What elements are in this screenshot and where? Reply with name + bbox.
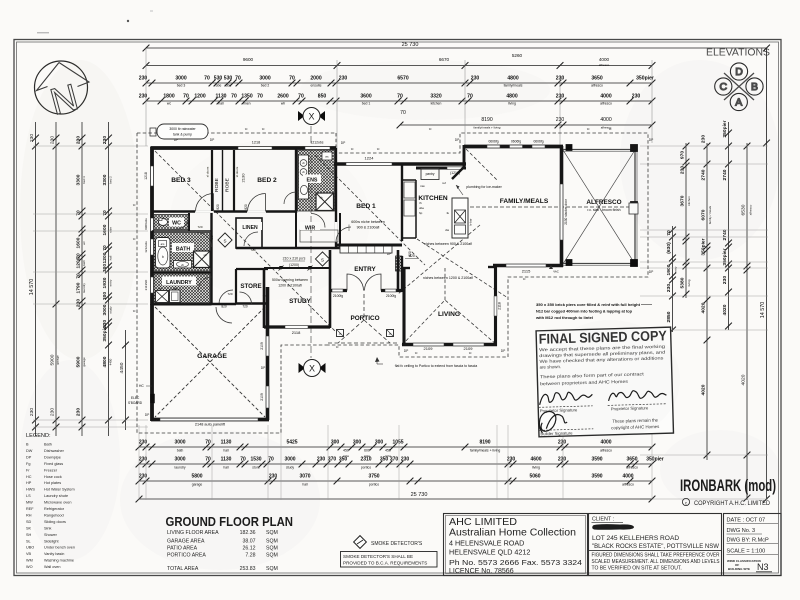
svg-text:4800: 4800	[102, 356, 108, 367]
wall family left upper	[463, 145, 466, 168]
bath room hatch	[154, 233, 210, 272]
svg-text:300: 300	[353, 440, 362, 446]
wall family right	[560, 146, 564, 267]
svg-text:25 730: 25 730	[402, 42, 419, 48]
wc room hatch	[154, 215, 188, 230]
wall entry bottom left segment	[330, 289, 347, 292]
svg-text:alfresco: alfresco	[622, 483, 634, 487]
wall garage bottom	[151, 418, 269, 422]
svg-text:0906obs: 0906obs	[144, 218, 148, 230]
svg-text:350pier: 350pier	[636, 76, 654, 82]
proprietor signature 2 squiggle	[608, 390, 666, 401]
svg-text:SL: SL	[26, 539, 31, 543]
wall hall bedrooms horizontal	[152, 210, 296, 213]
svg-text:450: 450	[385, 449, 391, 453]
svg-text:CLIENT :: CLIENT :	[592, 517, 614, 523]
dimension column left 3	[81, 122, 83, 436]
ens vanity	[299, 155, 309, 199]
wall garage top partial	[211, 303, 236, 306]
svg-text:230: 230	[401, 457, 410, 463]
svg-text:1350: 1350	[241, 94, 252, 100]
svg-text:600: 600	[364, 449, 370, 453]
svg-text:portico: portico	[369, 483, 379, 487]
living windows 2109 x2	[413, 343, 444, 346]
wall family top	[464, 145, 563, 149]
svg-text:2109: 2109	[424, 346, 434, 351]
door gap bed3	[195, 210, 214, 213]
smoke detector note box	[341, 552, 438, 568]
roof hip diagonal bed wing	[155, 151, 338, 334]
svg-text:1800: 1800	[163, 94, 174, 100]
svg-text:PROVIDED TO B.C.A. REQUIREM: PROVIDED TO B.C.A. REQUIREMENTS	[343, 561, 427, 566]
svg-text:0606fg: 0606fg	[511, 140, 521, 144]
ens door arc	[284, 192, 296, 204]
bath tub	[156, 238, 171, 269]
wall bed1 right	[401, 164, 403, 241]
family windows 0606fg x3	[487, 145, 500, 148]
svg-text:530: 530	[214, 76, 223, 82]
svg-text:alfresco: alfresco	[591, 84, 603, 88]
svg-text:4000: 4000	[600, 94, 611, 100]
svg-text:2310: 2310	[360, 457, 371, 463]
ens room hatch	[298, 150, 335, 211]
alfresco slab edges	[563, 149, 636, 151]
svg-text:fd: fd	[245, 127, 248, 131]
wall portico right / niche	[401, 256, 403, 292]
ens shower	[316, 193, 334, 211]
svg-text:X: X	[308, 112, 314, 122]
svg-text:linen: linen	[243, 102, 250, 106]
svg-text:LOT 245 KELLEHERS ROAD: LOT 245 KELLEHERS ROAD	[592, 535, 679, 542]
wall living right	[494, 267, 497, 346]
wall bed1 bottom	[336, 244, 402, 247]
dimension column right 2	[685, 143, 687, 298]
dimension row bottom 1	[139, 446, 652, 448]
svg-text:alfresco: alfresco	[600, 102, 612, 106]
dimension row top 5	[400, 124, 652, 126]
bottom dimension extension lines	[138, 425, 140, 500]
wall bath top=wc bottom	[152, 230, 212, 232]
entry sidelight windows 2100fg	[332, 289, 343, 292]
svg-text:1218: 1218	[144, 172, 148, 180]
svg-text:2113SD: 2113SD	[144, 279, 148, 290]
room label WC	[169, 218, 184, 227]
laundry tub	[170, 290, 181, 303]
wall family bottom	[493, 264, 563, 268]
svg-text:b-bar: b-bar	[469, 218, 473, 225]
svg-text:DP: DP	[341, 141, 346, 145]
svg-text:Builder Signature: Builder Signature	[540, 430, 573, 436]
svg-text:DP: DP	[261, 366, 266, 370]
dimension column left 1 outer 14 570	[35, 122, 37, 436]
svg-text:bed 2: bed 2	[261, 84, 270, 88]
window bed2 top 1218	[238, 147, 272, 149]
bed1 robe row	[340, 246, 392, 253]
dimension column left 4	[108, 122, 110, 436]
fireplace niche hatched	[396, 256, 403, 271]
kitchen island bench	[452, 198, 468, 238]
svg-text:2109: 2109	[464, 346, 474, 351]
svg-text:0606fg: 0606fg	[488, 140, 498, 144]
dimension column right 6 outer 14 570	[766, 48, 768, 499]
svg-text:SMOKE DETECTOR'S SHALL BE: SMOKE DETECTOR'S SHALL BE	[343, 554, 413, 559]
svg-text:230: 230	[722, 276, 728, 284]
svg-text:300: 300	[331, 440, 340, 446]
door gap bed1	[335, 222, 338, 242]
top dimension extension lines	[145, 48, 147, 146]
window ens top 1212obs	[305, 147, 330, 150]
roof overhang dashed outline	[137, 133, 648, 433]
dimension column left 2	[55, 122, 57, 436]
svg-text:niches between 1200 & 2100afl: niches between 1200 & 2100afl	[423, 276, 473, 280]
svg-text:Ph No. 5573 2666 Fax. 55: Ph No. 5573 2666 Fax. 5573 3324	[449, 558, 582, 567]
wall garage right	[266, 287, 270, 420]
svg-text:pantry: pantry	[426, 172, 435, 176]
wall entry left	[329, 250, 332, 328]
dimension row top 4	[146, 100, 652, 102]
garage hall door arc	[216, 307, 232, 323]
svg-text:with M12 rod through to lintel: with M12 rod through to lintel	[535, 315, 593, 320]
svg-text:8190: 8190	[481, 117, 492, 123]
svg-text:ENTRY: ENTRY	[354, 266, 376, 273]
alfresco roof diagonals	[563, 150, 635, 264]
portico posts	[337, 330, 344, 337]
north symbol	[35, 61, 90, 123]
svg-text:LIVING: LIVING	[438, 311, 460, 318]
svg-text:70: 70	[257, 94, 263, 100]
svg-text:fd: fd	[523, 277, 526, 281]
svg-text:1212obs: 1212obs	[310, 141, 323, 145]
svg-text:living: living	[687, 279, 691, 286]
roof hip diagonal kitchen to living	[417, 239, 508, 298]
family stacker door gap	[560, 184, 563, 240]
builder signature squiggle	[539, 411, 567, 433]
svg-text:3750: 3750	[368, 474, 379, 480]
wall entry bottom right segment	[381, 289, 402, 292]
svg-text:SMOKE DETECTOR'S: SMOKE DETECTOR'S	[371, 541, 423, 547]
dimension column right 3	[706, 143, 708, 460]
family window 2115	[506, 264, 546, 267]
svg-text:FIGURED DIMENSIONS SHALL TA: FIGURED DIMENSIONS SHALL TAKE PREFERENCE…	[592, 553, 720, 559]
living window 2118	[494, 296, 497, 316]
svg-text:370: 370	[328, 457, 337, 463]
door laundry left 2113SD	[151, 277, 154, 293]
svg-text:DP: DP	[649, 270, 654, 274]
door arc bed3	[196, 194, 214, 212]
svg-text:fd: fd	[587, 127, 590, 131]
svg-text:BUILDING SITE: BUILDING SITE	[728, 567, 750, 571]
alfresco piers	[631, 145, 638, 152]
svg-text:4600: 4600	[530, 457, 541, 463]
wall living left	[402, 268, 405, 346]
svg-text:530: 530	[224, 76, 233, 82]
study walls	[263, 268, 266, 328]
right dimension extension lines	[640, 145, 768, 147]
svg-text:14 570: 14 570	[760, 302, 766, 319]
svg-text:70: 70	[183, 94, 189, 100]
svg-text:N3: N3	[757, 562, 769, 572]
room label WIR	[300, 222, 320, 230]
wall ens right / bed1 left	[335, 148, 337, 248]
wall linen wir bottom	[236, 247, 340, 250]
window bed1 1224	[346, 163, 392, 166]
svg-text:portico: portico	[361, 466, 371, 470]
robe dividers bed3 bed2	[211, 150, 213, 211]
svg-text:hp: hp	[419, 211, 423, 215]
svg-text:a/s: a/s	[161, 242, 165, 246]
rainwater tank	[157, 124, 208, 139]
roof hip diagonal kitchen valley	[398, 225, 480, 294]
svg-text:4000: 4000	[600, 117, 611, 123]
svg-text:350: 350	[380, 457, 389, 463]
figured dimensions box	[589, 551, 722, 576]
svg-text:3650: 3650	[626, 457, 637, 463]
svg-text:fd: fd	[377, 147, 380, 151]
svg-text:VAC: VAC	[553, 270, 559, 274]
ens wc niche	[322, 152, 332, 160]
dimension row top overall 25 730	[146, 47, 767, 49]
wir shelf lines	[300, 230, 338, 242]
svg-text:DP: DP	[145, 413, 150, 417]
room label LINEN	[238, 222, 262, 230]
svg-text:1130: 1130	[215, 94, 226, 100]
svg-text:DP: DP	[210, 138, 215, 142]
svg-text:fd: fd	[262, 127, 265, 131]
svg-text:KITCHEN: KITCHEN	[418, 195, 448, 202]
client redaction blob	[592, 524, 634, 530]
svg-text:DP: DP	[455, 138, 460, 142]
copyright line	[682, 498, 689, 505]
svg-text:4 HELENSVALE ROAD: 4 HELENSVALE ROAD	[449, 539, 524, 548]
svg-text:HC: HC	[139, 384, 144, 388]
svg-text:r.c. slab - broom finish: r.c. slab - broom finish	[587, 208, 620, 212]
svg-text:230: 230	[558, 440, 567, 446]
svg-text:WIND CLASSIFICATION: WIND CLASSIFICATION	[727, 559, 761, 563]
S diamond symbol entry	[315, 252, 329, 266]
svg-text:wm: wm	[158, 287, 163, 291]
svg-text:70: 70	[235, 76, 241, 82]
wall entry right	[397, 250, 400, 292]
client box	[589, 514, 722, 576]
window bed3 left 1218	[151, 166, 154, 186]
svg-text:4020: 4020	[701, 384, 707, 395]
svg-text:8190: 8190	[479, 440, 490, 446]
svg-text:flat fc ceiling to Portico to: flat fc ceiling to Portico to extend fro…	[395, 364, 478, 368]
S diamond symbol hall	[218, 233, 232, 247]
svg-text:0606fg: 0606fg	[533, 140, 543, 144]
svg-text:4020: 4020	[701, 302, 707, 313]
dimension row bottom 4 overall	[139, 498, 652, 500]
svg-text:2100fg: 2100fg	[386, 294, 396, 298]
study window 2118	[285, 326, 308, 329]
svg-text:living: living	[532, 466, 540, 470]
scan speck marks	[127, 20, 129, 22]
company box AHC Limited	[444, 514, 588, 576]
svg-text:DP: DP	[501, 349, 506, 353]
proprietor signature 1 squiggle	[539, 392, 592, 405]
svg-text:2118: 2118	[498, 302, 502, 310]
svg-text:5060: 5060	[529, 474, 540, 480]
window wc left 0906obs	[151, 218, 154, 231]
svg-text:SQM: SQM	[266, 566, 278, 572]
svg-text:Australian Home Collection: Australian Home Collection	[449, 527, 576, 539]
svg-text:robe: robe	[225, 84, 232, 88]
svg-text:fd: fd	[415, 351, 418, 355]
kitchen pantry	[421, 169, 439, 180]
svg-text:fd: fd	[609, 127, 612, 131]
wall kitchen top	[416, 167, 466, 170]
svg-text:b: b	[162, 255, 164, 259]
dimension row top 3	[146, 82, 652, 84]
svg-text:4020: 4020	[722, 304, 728, 315]
room label LAUNDRY	[162, 277, 196, 286]
bath door arc	[197, 233, 212, 248]
wall bath laundry right	[210, 213, 212, 304]
svg-text:2148 auto panelift: 2148 auto panelift	[195, 423, 226, 427]
svg-text:robe: robe	[215, 84, 222, 88]
svg-text:GARAGE: GARAGE	[197, 353, 227, 360]
svg-text:230: 230	[666, 284, 672, 292]
wc door arc	[176, 216, 189, 229]
final signed copy stamp box	[536, 327, 673, 437]
svg-text:2109: 2109	[260, 342, 264, 350]
dimension column left 5 partial	[125, 330, 127, 430]
svg-text:2100fg: 2100fg	[333, 294, 343, 298]
svg-text:ELEC: ELEC	[131, 396, 140, 400]
svg-text:5380: 5380	[680, 277, 686, 288]
svg-text:X: X	[309, 364, 315, 374]
svg-text:alfresco: alfresco	[626, 466, 638, 470]
svg-text:4000: 4000	[600, 440, 611, 446]
svg-text:3650: 3650	[591, 76, 602, 82]
laundry room hatch	[154, 274, 210, 303]
svg-text:4450: 4450	[119, 362, 125, 373]
wall laundry top	[152, 272, 212, 274]
svg-text:DWG BY: R.McP: DWG BY: R.McP	[727, 538, 770, 544]
svg-text:TO BE VERIFIED ON SITE AT: TO BE VERIFIED ON SITE AT SETOUT.	[592, 566, 682, 572]
roof ridge family alfresco	[452, 206, 634, 208]
wall family kitchen diagonal	[452, 167, 464, 179]
svg-text:tub: tub	[173, 287, 177, 291]
svg-text:"BLACK ROCKS ESTATE", POTTS: "BLACK ROCKS ESTATE", POTTSVILLE NSW	[592, 543, 720, 550]
wall bedroom wing left	[150, 147, 154, 306]
svg-text:1212obs: 1212obs	[144, 241, 148, 253]
svg-text:hall: hall	[218, 102, 224, 106]
svg-text:4000: 4000	[622, 474, 633, 480]
svg-text:WM: WM	[26, 559, 33, 563]
svg-text:PORTICO: PORTICO	[350, 315, 379, 322]
store walls	[236, 268, 268, 270]
svg-text:1224: 1224	[365, 156, 375, 161]
dimension column right 5	[746, 143, 748, 500]
svg-text:1200: 1200	[194, 94, 205, 100]
kitchen nook fridge column	[415, 180, 417, 238]
wir walls	[295, 213, 297, 248]
svg-text:alfresco: alfresco	[600, 449, 612, 453]
svg-text:DP: DP	[404, 349, 409, 353]
laundry wm box	[156, 291, 169, 303]
date dwg box	[724, 514, 782, 576]
svg-text:SCALED MEASUREMENT. ALL DIM: SCALED MEASUREMENT. ALL DIMENSIONS AND L…	[592, 559, 721, 565]
svg-text:3590: 3590	[591, 474, 602, 480]
svg-text:1900: 1900	[666, 264, 672, 275]
svg-text:2130 stacker door: 2130 stacker door	[564, 198, 568, 224]
svg-text:DATE : OCT 07: DATE : OCT 07	[727, 518, 766, 524]
svg-text:1055: 1055	[392, 440, 403, 446]
wall living bottom	[402, 343, 497, 347]
scan shading patches	[20, 60, 140, 360]
ens wall left	[295, 148, 297, 213]
svg-text:2115: 2115	[522, 269, 531, 274]
svg-text:entry: entry	[674, 266, 678, 273]
entry double door arcs	[347, 274, 364, 291]
svg-text:LAUNDRY: LAUNDRY	[166, 280, 192, 286]
door arc bed1	[336, 227, 351, 242]
svg-text:350 x 350 brick piers core fil: 350 x 350 brick piers core filled & rein…	[536, 302, 641, 307]
svg-text:370: 370	[390, 457, 399, 463]
wall garage left	[150, 304, 154, 421]
svg-text:plumbing for ice-maker: plumbing for ice-maker	[466, 185, 502, 189]
svg-text:ALFRESCO: ALFRESCO	[586, 199, 621, 206]
living roof gable dashes	[402, 268, 497, 345]
svg-text:FAMILY/MEALS: FAMILY/MEALS	[500, 198, 549, 205]
room label ENS	[303, 175, 321, 184]
svg-text:niches between 900 & 2100afl: niches between 900 & 2100afl	[424, 242, 472, 246]
dimension row top 2	[146, 65, 652, 67]
svg-text:SCALE = 1:100: SCALE = 1:100	[727, 549, 766, 555]
garage roof X dashes	[155, 307, 265, 417]
wir door arc	[311, 214, 325, 228]
svg-text:WO: WO	[26, 565, 33, 569]
wc toilet	[159, 219, 168, 226]
dimension column right 1	[672, 226, 674, 332]
svg-text:fd: fd	[351, 147, 354, 151]
bath vanity vb	[174, 261, 192, 269]
svg-text:fd: fd	[336, 345, 339, 349]
svg-text:family/meals + living: family/meals + living	[470, 449, 501, 453]
svg-text:4000: 4000	[599, 57, 610, 62]
portico dashed lines	[328, 294, 399, 343]
left dimension extension lines	[33, 145, 148, 147]
svg-text:25 730: 25 730	[411, 492, 428, 498]
room label BATH	[172, 243, 194, 252]
svg-text:bed 3: bed 3	[177, 84, 186, 88]
svg-text:3000: 3000	[175, 76, 186, 82]
svg-text:4450: 4450	[109, 358, 113, 365]
svg-text:230: 230	[558, 457, 567, 463]
svg-text:tank & pump: tank & pump	[173, 133, 192, 137]
svg-text:2118: 2118	[292, 330, 301, 335]
wall bed1 top	[334, 162, 466, 166]
svg-text:3000: 3000	[259, 76, 270, 82]
svg-text:4020: 4020	[741, 374, 747, 385]
svg-text:SK: SK	[26, 526, 32, 530]
svg-text:3590: 3590	[591, 457, 602, 463]
svg-text:DWG No. 3: DWG No. 3	[727, 528, 756, 534]
svg-text:70: 70	[204, 76, 210, 82]
svg-text:family/meals + living: family/meals + living	[474, 126, 501, 130]
dimension row bottom 2	[139, 463, 652, 465]
dimension column right 4	[728, 122, 730, 330]
linen closet	[236, 218, 262, 248]
svg-text:fd: fd	[133, 309, 136, 313]
svg-text:Wall oven: Wall oven	[44, 565, 61, 569]
bath shower	[194, 251, 211, 268]
svg-text:350: 350	[339, 457, 348, 463]
window bath left 1212obs	[151, 239, 154, 255]
svg-text:2109: 2109	[260, 393, 264, 401]
svg-text:9600: 9600	[243, 57, 254, 62]
